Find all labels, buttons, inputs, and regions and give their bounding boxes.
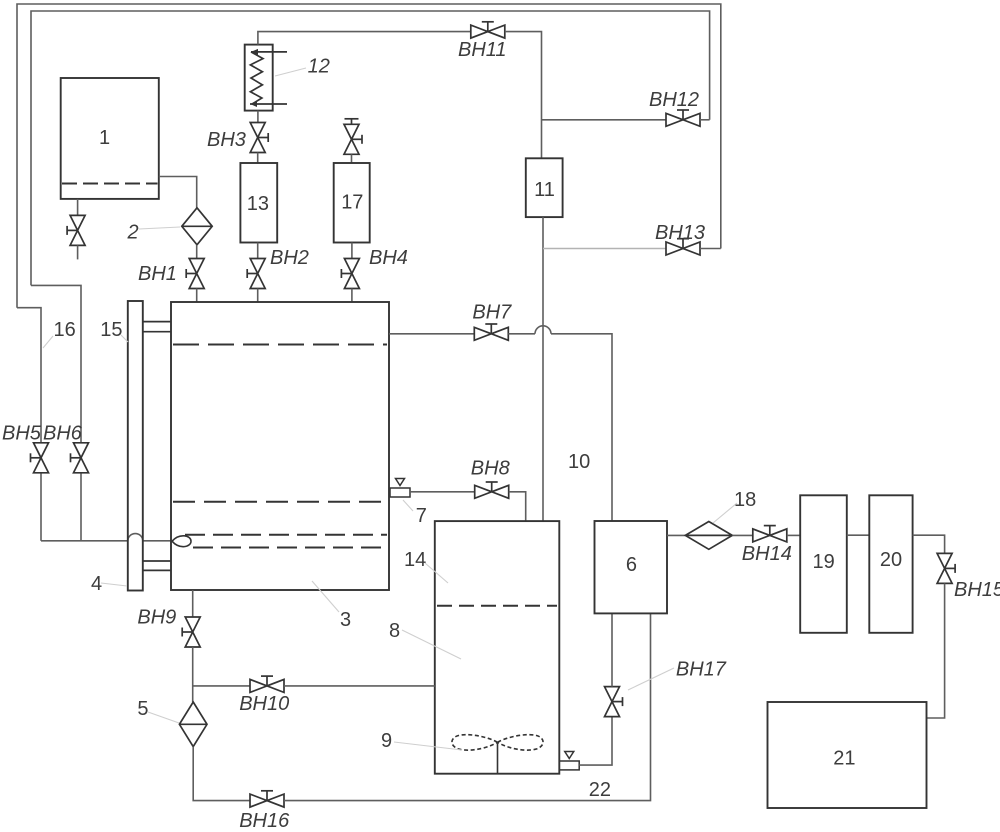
svg-text:20: 20: [880, 549, 902, 571]
wire drain valve outlet: [77, 245, 79, 259]
bridge over pipe 10: [535, 326, 551, 334]
filter 5: [179, 702, 207, 747]
svg-text:7: 7: [416, 505, 427, 527]
wire bridge to box 6 drop: [551, 334, 612, 521]
column 15 upper ties: [143, 321, 171, 323]
tank 3 middle level dashed line: [173, 501, 387, 503]
label 15 leader: [121, 335, 128, 342]
pipe 16 outer loop top run: [17, 4, 721, 308]
wire BH11 to drop pipe: [505, 32, 542, 159]
wire BH17 to box 6: [611, 613, 613, 686]
svg-text:9: 9: [381, 730, 392, 752]
tank 3 lower dashed line a: [185, 534, 387, 536]
wire collector to column 15: [41, 540, 128, 542]
svg-text:BH14: BH14: [742, 543, 792, 565]
wire filter 2 to BH1: [196, 245, 198, 259]
label 3 leader: [312, 581, 339, 612]
wire BH9 to branch and filter 5: [192, 647, 194, 702]
tank 1 level dashed line: [62, 183, 158, 185]
svg-text:BH12: BH12: [649, 89, 699, 111]
reactor 14: [435, 521, 560, 774]
wire BH7 to bridge: [508, 333, 535, 335]
wire box 11 down to reactor 14: [542, 217, 544, 521]
valve BH13: [666, 239, 700, 255]
svg-text:BH1: BH1: [138, 263, 177, 285]
wire column 15 to tank 3: [143, 540, 171, 542]
label 16 leader: [43, 336, 53, 348]
tank 3 inlet drop nozzle: [172, 536, 191, 547]
svg-text:BH8: BH8: [471, 458, 510, 480]
pipe BH5 to collector: [40, 473, 42, 541]
valve BH14: [753, 526, 787, 542]
wire filter 18 to BH14: [732, 534, 752, 536]
valve BH11: [471, 22, 505, 38]
valve BH5: [31, 443, 49, 473]
svg-text:BH5: BH5: [2, 423, 42, 445]
svg-text:5: 5: [137, 698, 148, 720]
agitator 9 propeller: [452, 735, 543, 750]
valve BH9: [182, 617, 200, 647]
wire coil 12 to BH3: [257, 111, 259, 123]
svg-text:BH10: BH10: [239, 693, 289, 715]
svg-text:22: 22: [589, 779, 611, 801]
valve BH12: [666, 110, 700, 126]
label 5 leader: [148, 712, 179, 723]
filter 2: [182, 208, 212, 245]
apparatus 6: [595, 521, 668, 613]
svg-text:12: 12: [308, 56, 330, 78]
svg-text:13: 13: [247, 193, 269, 215]
svg-text:18: 18: [734, 489, 756, 511]
label 9 leader: [394, 742, 462, 750]
svg-text:BH11: BH11: [458, 39, 507, 61]
wire BH13 to outer loop riser: [700, 248, 721, 250]
valve BH7: [474, 324, 508, 340]
pipe inner loop top run: [31, 11, 710, 285]
filter 18: [685, 522, 732, 550]
pipe BH6 to collector: [80, 473, 82, 541]
reactor 14 level dashed line: [437, 605, 557, 607]
label 8 leader: [402, 630, 461, 659]
wire tank 3 to BH7: [389, 333, 474, 335]
label 18 leader: [713, 503, 737, 523]
heat exchanger 12: [245, 45, 273, 111]
svg-text:BH17: BH17: [676, 659, 727, 681]
wire BH8 to reactor 14: [509, 492, 526, 521]
svg-text:BH2: BH2: [270, 247, 309, 269]
pipe 16 outer loop left elbow to BH5: [17, 308, 41, 443]
valve BH3: [250, 123, 268, 153]
wire BH10 branch: [193, 685, 250, 687]
valve vent of vessel 17: [344, 119, 362, 155]
valve drain of tank 1: [67, 215, 85, 245]
nozzle reactor 14 side nozzle: [559, 752, 579, 770]
heat exchanger 12 outlet stub: [250, 103, 287, 105]
label 12 leader: [275, 68, 306, 76]
heat exchanger 12 outlet arrow: [250, 101, 257, 107]
label 7 leader: [403, 500, 413, 511]
svg-text:8: 8: [389, 620, 400, 642]
wire BH2 to tank 3: [257, 289, 259, 303]
label 14 leader: [425, 563, 448, 583]
wire tank 3 drain to BH9: [192, 590, 194, 617]
column 15: [128, 301, 143, 591]
nozzle tank 3 side nozzle 7: [390, 479, 410, 498]
wire BH3 to vessel 13: [257, 153, 259, 164]
svg-text:BH7: BH7: [472, 301, 512, 323]
wire vessel 17 to BH4: [351, 243, 353, 259]
agitator 9 shaft: [497, 742, 499, 773]
svg-text:BH9: BH9: [137, 606, 176, 628]
wire BH12 branch: [542, 119, 667, 121]
wire tank 1 drain: [77, 199, 79, 216]
svg-text:BH13: BH13: [655, 222, 705, 244]
label 4 leader: [101, 583, 127, 586]
svg-text:15: 15: [100, 319, 122, 341]
svg-text:17: 17: [341, 191, 363, 213]
heat exchanger 12 inlet arrow: [251, 49, 258, 55]
wire 22 to box 6: [284, 613, 651, 800]
svg-text:BH6: BH6: [43, 423, 83, 445]
valve BH15: [937, 553, 955, 583]
apparatus 19: [800, 495, 847, 633]
svg-text:3: 3: [340, 609, 351, 631]
svg-text:14: 14: [404, 549, 426, 571]
wire box 20 to BH15: [913, 535, 945, 553]
valve BH10: [250, 676, 284, 692]
label BH17 leader: [628, 668, 674, 690]
svg-text:16: 16: [54, 319, 76, 341]
valve BH16: [250, 791, 284, 807]
valve BH4: [341, 259, 359, 289]
heat exchanger 12 coil: [250, 52, 263, 104]
heat exchanger 12 inlet stub: [251, 51, 287, 53]
tank 3 lower dashed line b: [193, 547, 387, 549]
wire BH14 to box 19: [787, 534, 800, 536]
svg-text:BH15: BH15: [954, 579, 1000, 601]
apparatus 20: [869, 495, 912, 633]
svg-text:BH16: BH16: [239, 810, 290, 832]
wire tank 1 outlet to filter 2: [159, 177, 197, 208]
bridge over column 15: [128, 534, 143, 541]
valve BH1: [186, 259, 204, 289]
wire coil 12 top riser: [258, 32, 471, 45]
pipe inner loop left elbow to BH6: [31, 285, 81, 443]
label 2 leader: [139, 227, 180, 229]
wire BH13 branch: [543, 248, 666, 250]
svg-text:BH3: BH3: [207, 129, 246, 151]
wire box 6 to filter 18: [667, 534, 685, 536]
wire vessel 13 to BH2: [257, 243, 259, 259]
svg-text:10: 10: [568, 451, 590, 473]
wire BH12 to inner loop riser: [700, 119, 710, 121]
wire BH1 to tank 3: [196, 289, 198, 303]
wire BH15 to box 21: [927, 583, 945, 718]
wire vent valve to vessel 17: [351, 154, 353, 163]
apparatus 11: [526, 158, 563, 217]
valve BH17: [605, 687, 623, 717]
svg-text:6: 6: [626, 554, 637, 576]
column 15 lower ties: [143, 560, 171, 562]
svg-text:1: 1: [99, 127, 110, 149]
apparatus 21: [768, 702, 927, 808]
wire BH10 to reactor 14: [284, 685, 435, 687]
wire box 19 to box 20: [847, 534, 870, 536]
svg-text:11: 11: [534, 179, 555, 201]
wire BH4 to tank 3: [351, 289, 353, 303]
vessel 17: [334, 163, 370, 243]
tank 3 upper level dashed line: [173, 344, 387, 346]
svg-text:2: 2: [127, 221, 139, 243]
valve BH8: [475, 482, 509, 498]
valve BH2: [247, 259, 265, 289]
tank 1: [61, 78, 159, 199]
svg-text:19: 19: [813, 551, 835, 573]
wire filter 5 to line 22: [193, 747, 250, 801]
svg-text:21: 21: [833, 748, 855, 770]
vessel 13: [240, 163, 277, 243]
tank 3: [171, 302, 389, 590]
valve BH6: [71, 443, 89, 473]
svg-text:4: 4: [91, 573, 102, 595]
wire nozzle to BH8: [410, 491, 475, 493]
wire reactor nozzle to BH17: [579, 717, 612, 766]
svg-text:BH4: BH4: [369, 247, 408, 269]
